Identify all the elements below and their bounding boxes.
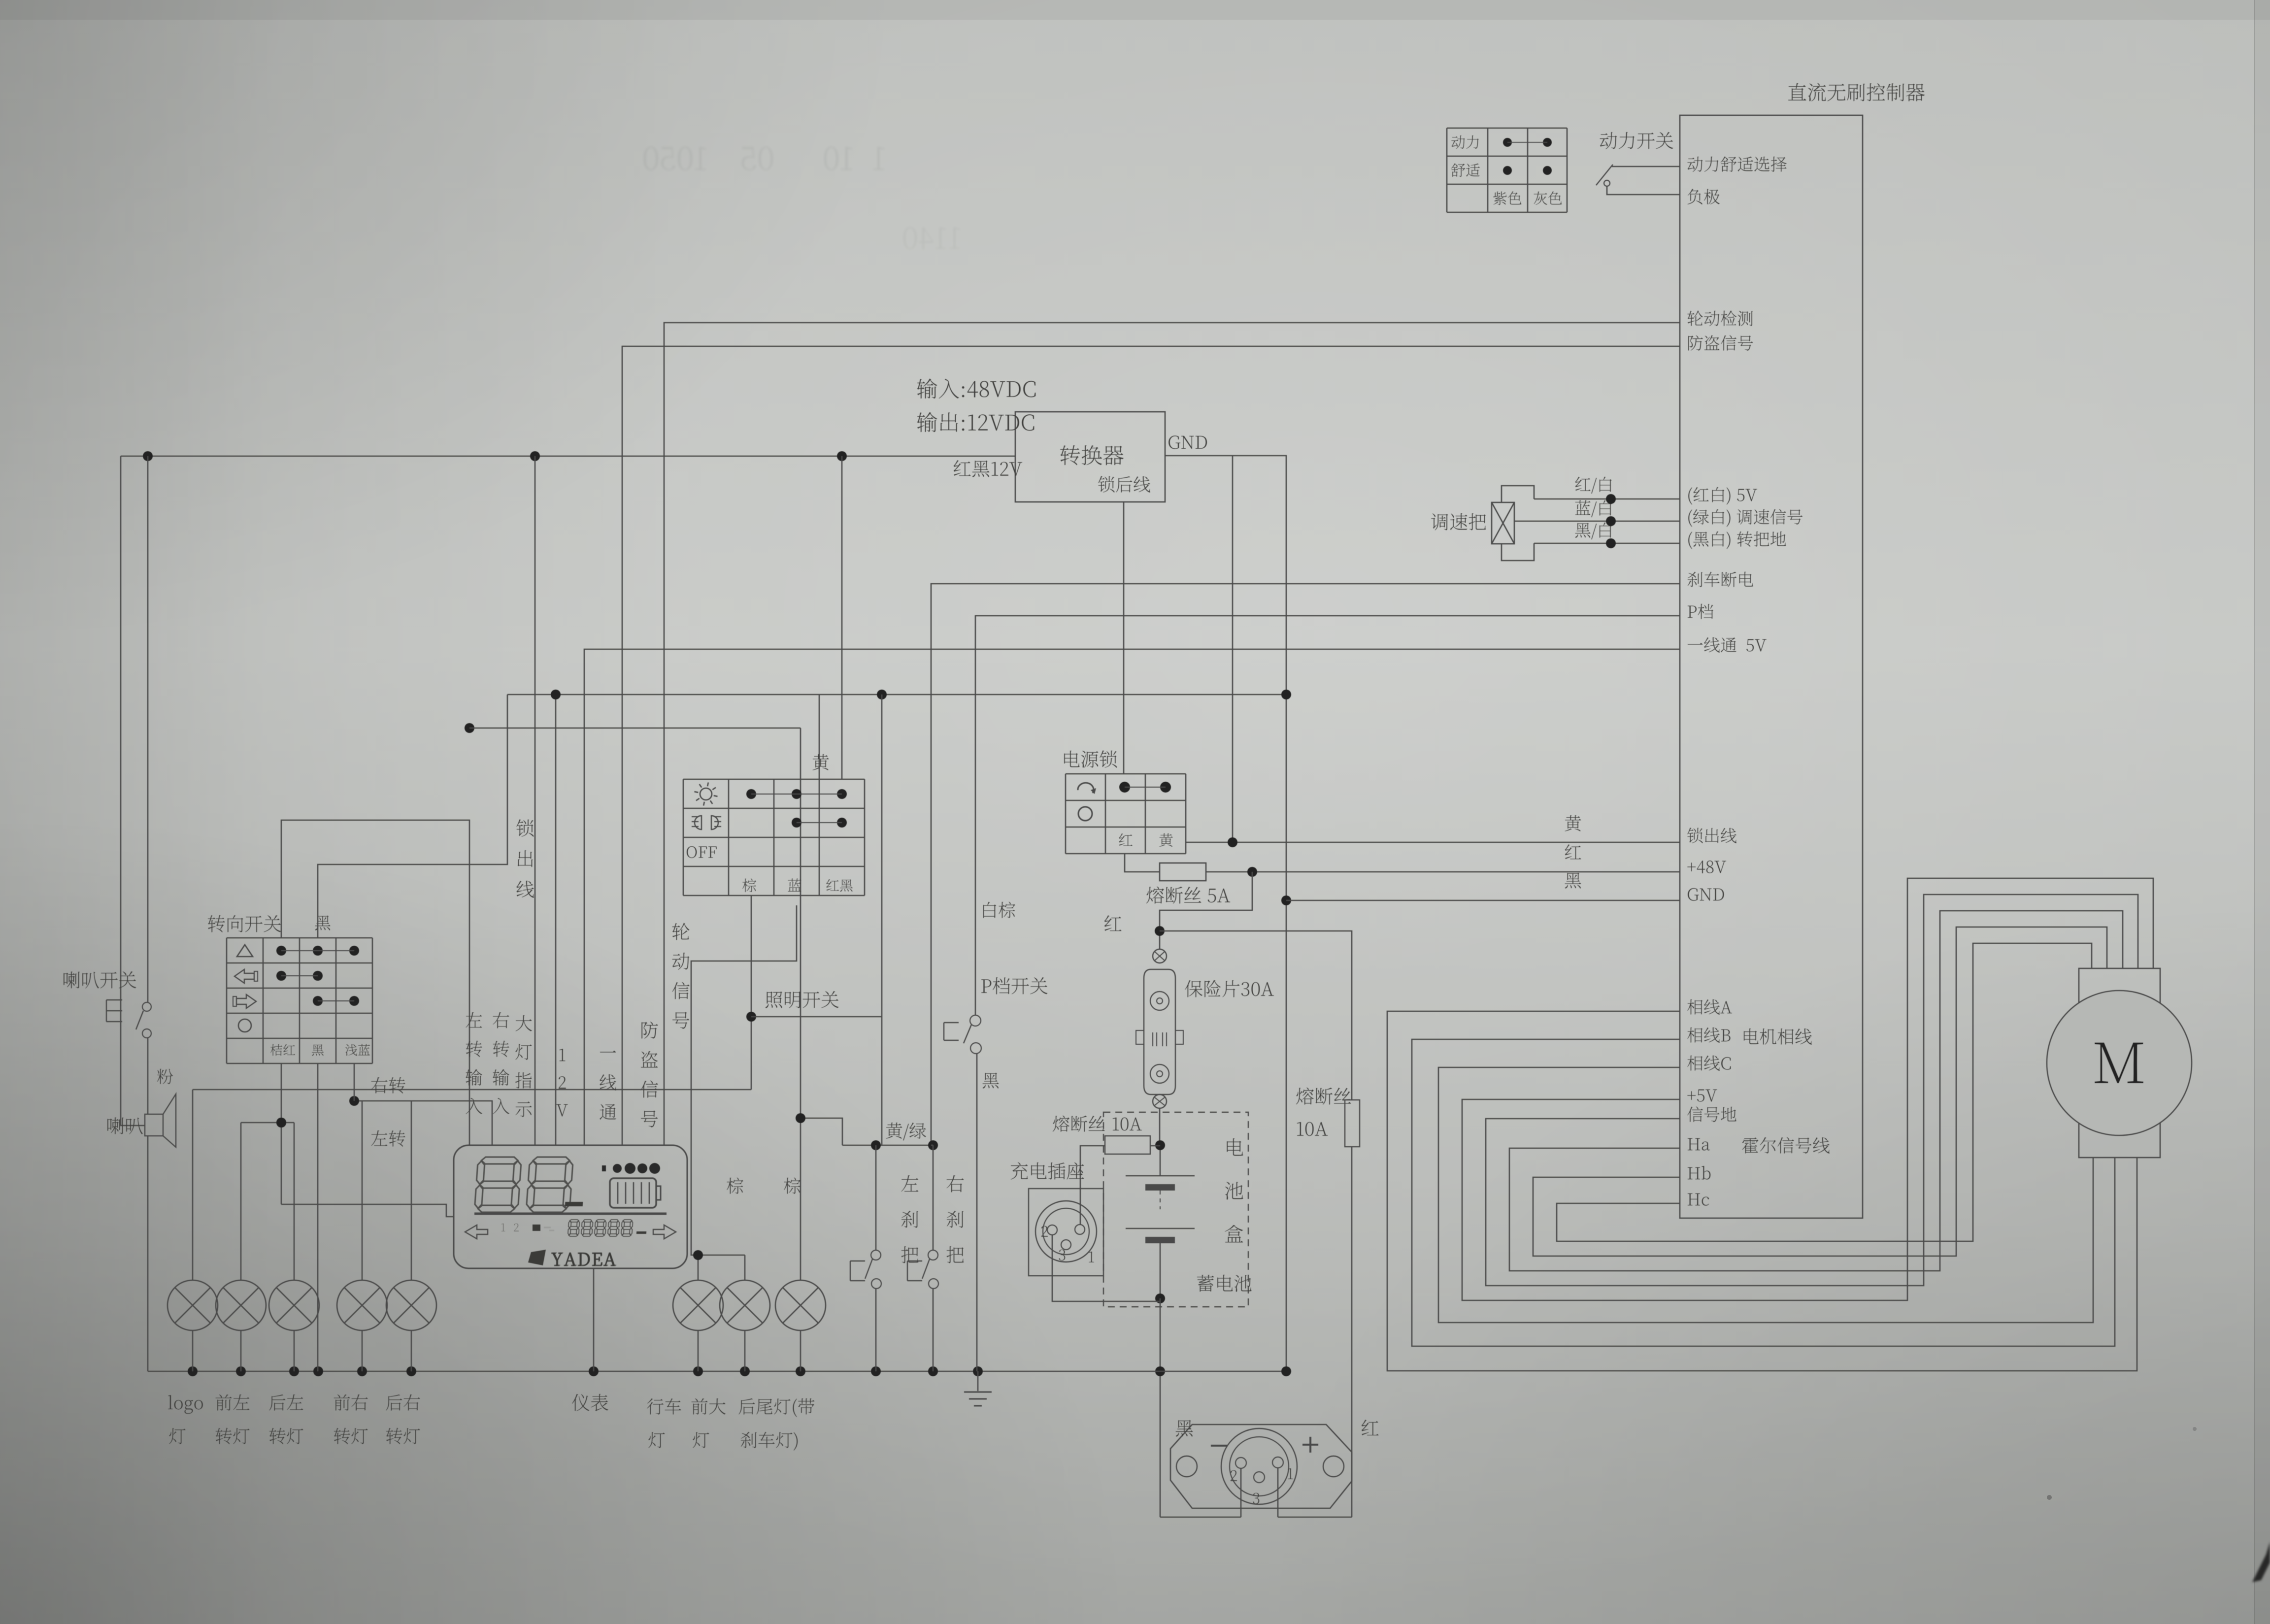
wire right-turn link to display [354,1101,492,1145]
wire red 48V from lock [1125,854,1160,872]
wire tail lamp feed [469,728,801,729]
wire light switch to common [751,1016,882,1018]
wire wheel-motion detect [664,323,1680,1145]
lamp tail-brake light L8 [775,1280,826,1330]
label anti-theft column [641,1022,658,1039]
wire brown down [751,895,752,1090]
display indicator dots [602,1165,606,1171]
wire lock-after from converter [1123,502,1125,774]
wire lock-out yellow drop [1232,456,1234,842]
throttle wire red-white [1534,498,1680,500]
dc-dc converter 48V-12V [1015,412,1165,502]
wire running-light brown feed [193,1089,751,1091]
wire turn col3 up common [318,695,507,938]
right brake lever switch [947,1175,964,1193]
wire hall signal ground [1486,895,2138,1286]
wire 12V branch to display [534,456,536,1145]
throttle grip sensor [1431,513,1486,530]
light switch headlight icon [695,816,701,829]
power-comfort select table [1447,128,1567,129]
wire turn col4 down right-turn [354,1063,355,1101]
wire GND to controller [1286,900,1680,901]
turn switch table [208,915,281,932]
wire horn to bus [147,1136,149,1371]
photo edge shading [0,0,2270,20]
display small icons [533,1225,540,1231]
ground symbol [977,1371,979,1391]
fuse 10A left [1053,1116,1105,1132]
label lock-out-line column [516,819,534,836]
charging socket [1011,1162,1084,1179]
fuse strip 30A [1153,949,1167,963]
wire turn col2 stair to display [281,820,469,1145]
wire fuse to battery [1159,1108,1161,1145]
wire headlight blue feed [691,905,797,1255]
label one-line column [600,1051,616,1053]
label right-turn-input column [493,1012,509,1028]
wire red-black up to 12V [841,456,843,779]
power switch SW [1600,132,1673,149]
wire anti-theft signal [622,346,1680,1145]
wire horn switch [147,456,149,1002]
turn table icons [237,945,253,957]
wire hall Ha [1509,911,2123,1271]
wire yellow up [819,695,820,779]
motor M [2079,968,2160,1158]
wire GND from converter [1165,456,1286,1371]
power lock switch table [1064,750,1117,767]
wire red battery positive [1351,1147,1353,1517]
wire common drop to brake levers [881,695,883,1145]
display meter wire to bus [593,1268,595,1371]
YADEA logo [528,1250,546,1265]
wire charge socket pin2 [1052,1235,1160,1301]
battery connector plug [1170,1425,1352,1508]
lamp rear-right turn L5 [386,1280,436,1330]
light switch table [683,779,865,780]
wire hall Hc [1557,943,2092,1241]
wire 12V rail [121,456,1015,457]
wire left-turn lamp link [241,1122,294,1124]
wire one-line-link [584,649,1680,1145]
fuse 5A [1160,863,1206,881]
throttle wire black-white [1534,543,1680,544]
wire phase A [1387,1011,2137,1371]
lamp front-right turn L4 [337,1280,387,1330]
wire battery negative down [1160,1298,1161,1517]
light table dots [746,789,756,799]
wire connector pins [1240,1468,1242,1517]
brake yellow-green wire [886,1123,926,1140]
horn switch [64,971,136,989]
ghost bleed-through text [644,147,884,170]
wire to main fuse [1160,872,1252,949]
wire hall Hb [1533,927,2107,1256]
label headlight-indicator column [516,1015,532,1031]
display big 88 digits [474,1157,522,1212]
wire turn col2 down left-turn [281,1063,282,1204]
P-gear switch [983,902,1015,918]
wire charge socket pin1 [1150,1145,1160,1147]
wire P switch to bus [976,1054,978,1371]
battery cells [1160,1145,1161,1176]
wire phase C [1438,1067,2093,1323]
lamp logo light L1 [167,1280,218,1330]
wire brake cutoff [931,584,1680,1145]
battery box dashed enclosure [1103,1112,1248,1307]
wire P-gear [975,616,1680,1016]
fuse 10A right [1296,1088,1351,1105]
lamp front-left turn L2 [216,1280,266,1330]
wire black common [555,695,557,1145]
display arrows [465,1225,488,1239]
power lock rotate icon [1078,783,1094,793]
dc brushless controller U1 [1680,115,1863,1218]
wire hall +5V [1462,878,2153,1300]
turn table dots [276,946,286,956]
label left-turn-input column [466,1012,482,1027]
wire left-turn to display [281,1204,454,1217]
wire lock-out yellow to controller [1186,842,1680,843]
display separator rule [474,1213,667,1215]
light switch sun icon [700,788,712,800]
wire horn feed left terminal [121,456,145,1126]
display odometer digits [567,1220,579,1236]
turn labels [371,1077,405,1094]
throttle wire blue-white [1514,521,1680,522]
controller pin labels [1687,157,1787,172]
wire phase B [1412,1039,2115,1346]
ground bus wire [148,1371,1286,1372]
lamp rear-left turn L3 [269,1280,319,1330]
lamp labels [168,1395,203,1414]
label wheel-motion column [672,923,690,940]
lamp running light L6 [673,1280,723,1330]
horn speaker [107,1117,143,1134]
display battery gauge icon [610,1178,656,1208]
power lock off icon [1078,807,1092,821]
lamp headlight L7 [720,1280,770,1330]
left brake lever switch [901,1175,919,1192]
label 12V column [560,1049,566,1061]
table contact dots [1503,138,1512,147]
wire turn col3 down to bus [317,1063,319,1371]
wire red to 10A fuse right [1160,931,1352,1100]
dashboard display unit [454,1145,687,1268]
